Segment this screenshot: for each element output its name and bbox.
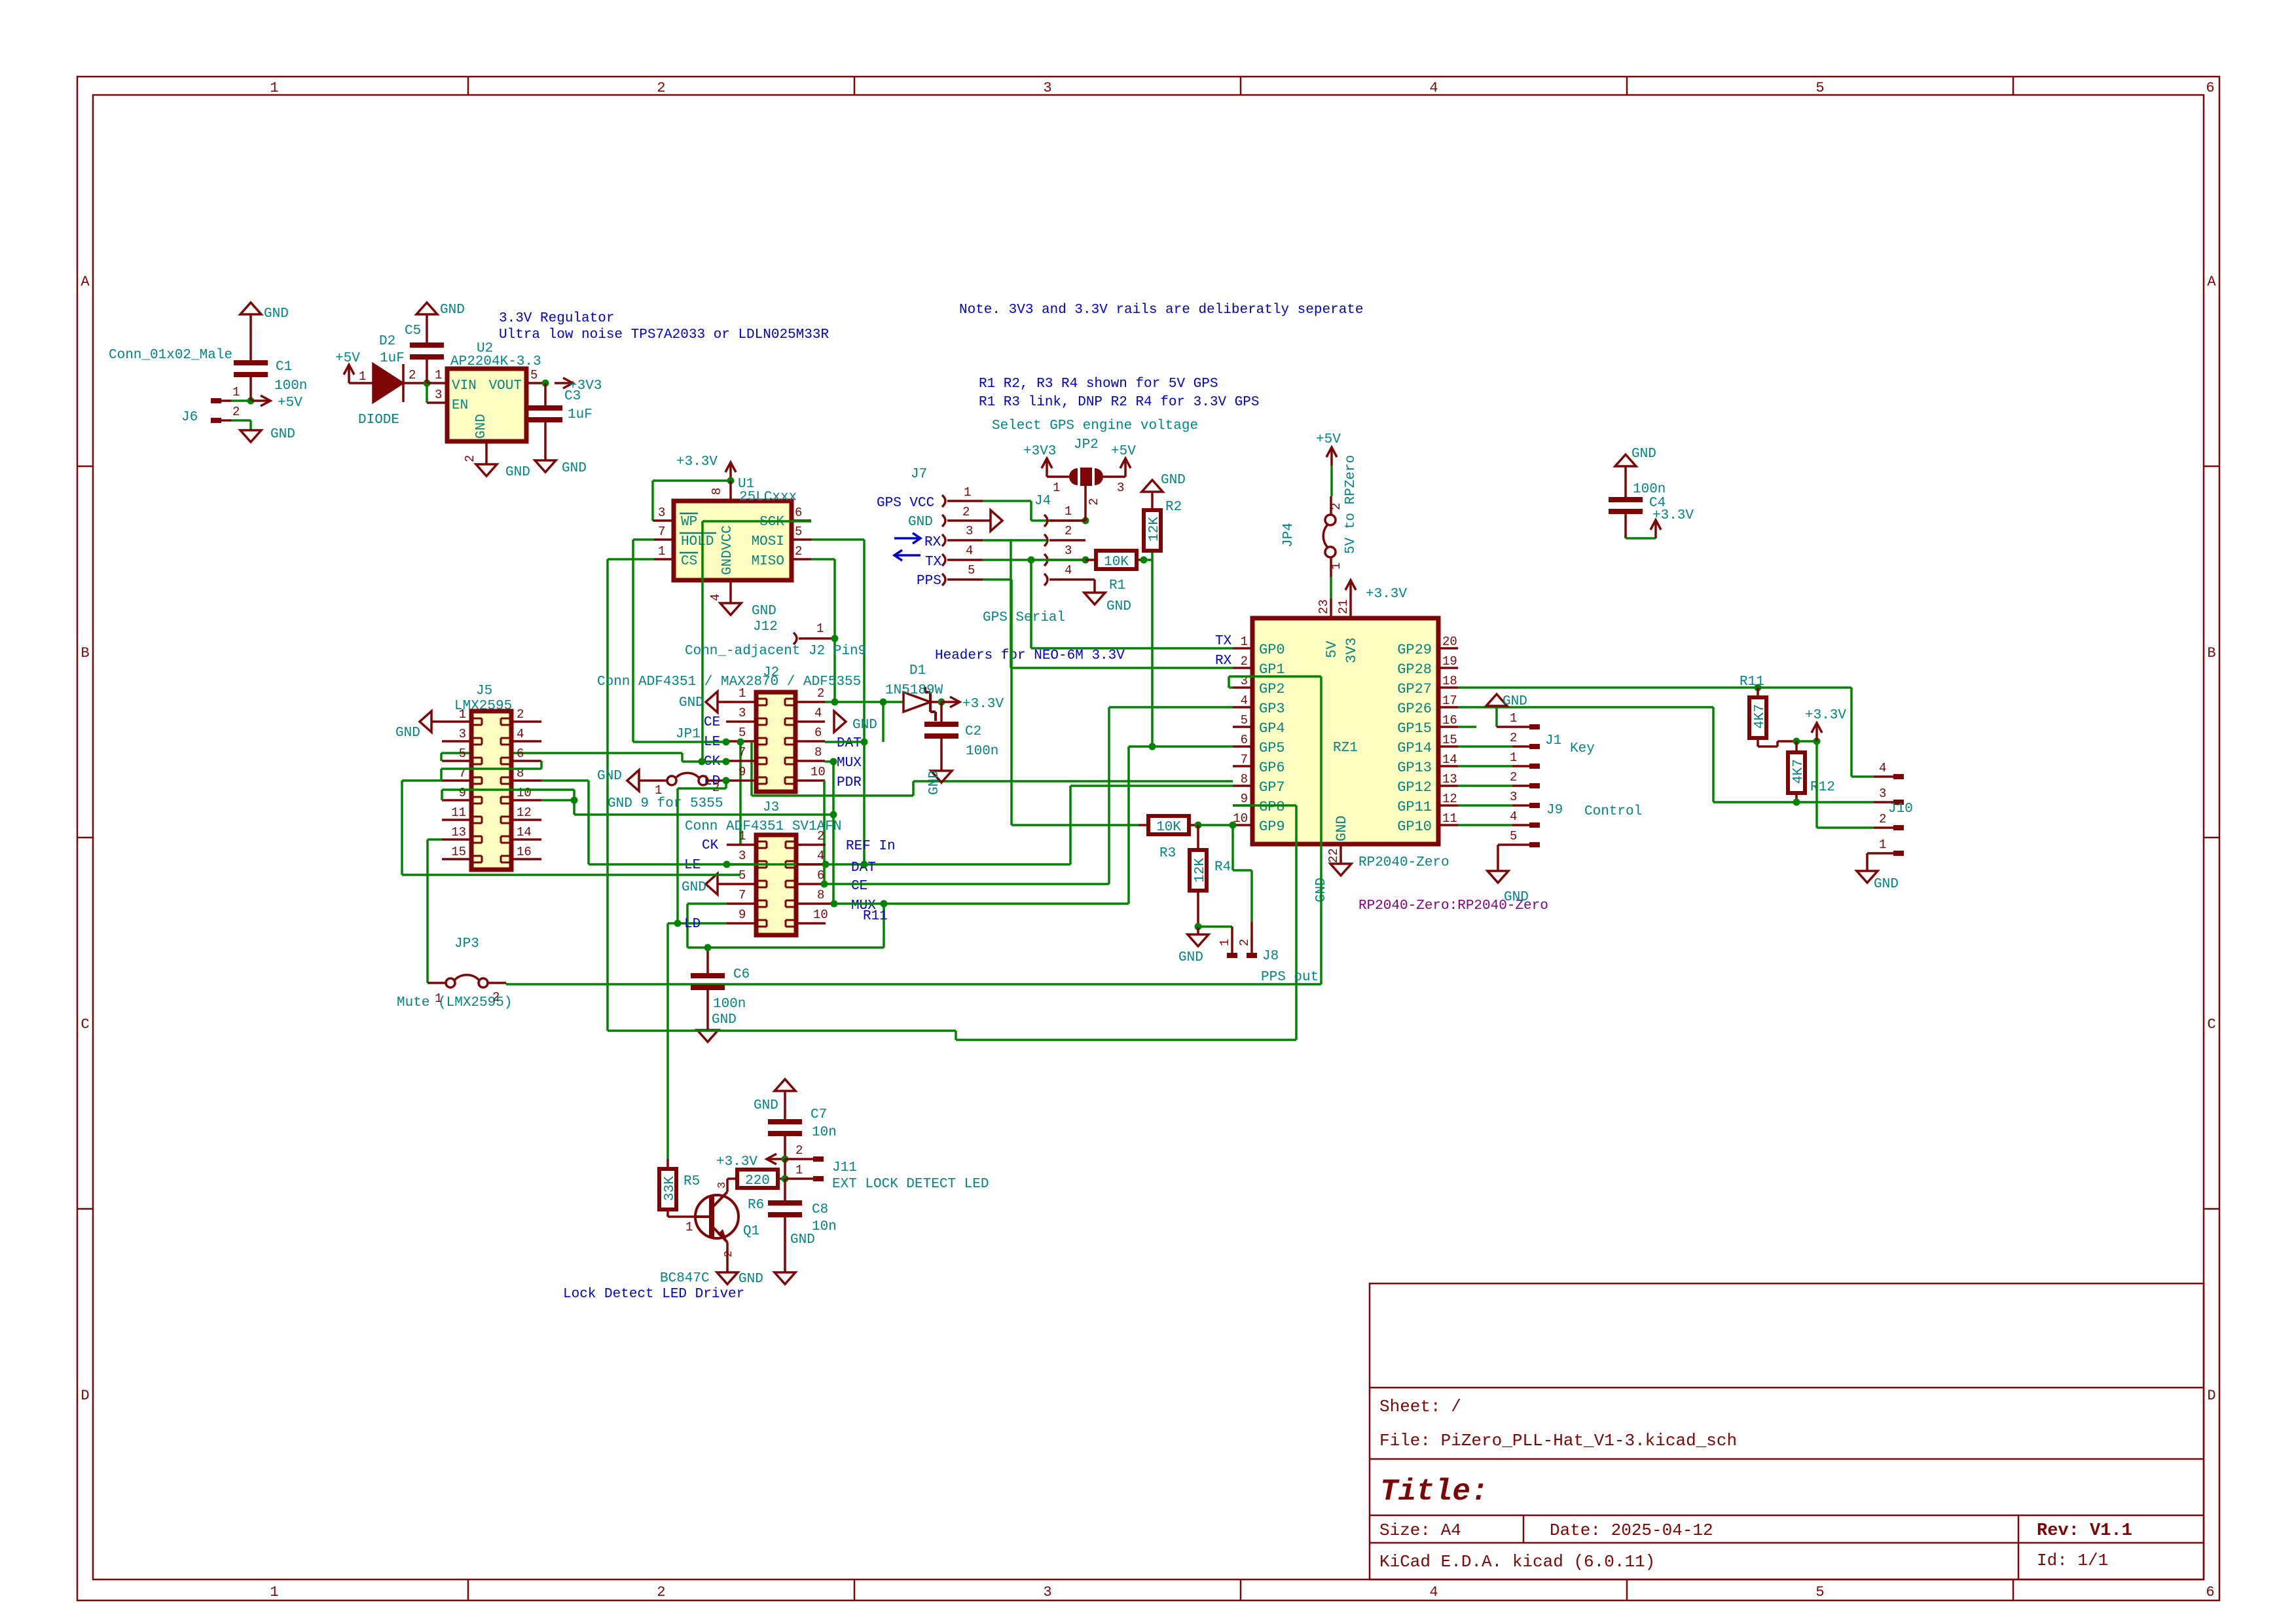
svg-text:4: 4 <box>1241 693 1248 708</box>
svg-text:5: 5 <box>1815 1584 1824 1600</box>
svg-text:RX: RX <box>924 535 941 550</box>
svg-text:GP9: GP9 <box>1259 819 1285 835</box>
pin U2.2 GND wire down <box>463 441 486 464</box>
svg-text:GND: GND <box>1503 694 1527 709</box>
node GP5 R2 junction <box>1149 743 1156 750</box>
svg-text:MISO: MISO <box>752 554 784 569</box>
svg-text:3: 3 <box>966 524 973 538</box>
wire GND bus to R12 and J10.3 <box>1497 707 1874 802</box>
svg-text:GND: GND <box>562 461 587 476</box>
svg-text:2: 2 <box>1510 731 1517 745</box>
svg-text:1uF: 1uF <box>380 351 405 366</box>
node MUX column mid junction <box>830 811 837 819</box>
svg-text:EN: EN <box>452 398 468 413</box>
pin J3.8 MUX <box>796 888 834 904</box>
svg-text:Conn_01x02_Male: Conn_01x02_Male <box>109 348 232 363</box>
connector J12 <box>685 619 866 659</box>
svg-text:1: 1 <box>459 707 466 722</box>
svg-text:5: 5 <box>530 368 538 382</box>
svg-text:100n: 100n <box>713 997 746 1012</box>
label LD J2 <box>704 774 720 789</box>
svg-text:4: 4 <box>1429 80 1438 96</box>
svg-text:Size: A4: Size: A4 <box>1379 1521 1461 1540</box>
svg-text:220: 220 <box>745 1173 770 1189</box>
note text select GPS engine voltage <box>992 418 1198 434</box>
pin J3.10 <box>796 908 828 923</box>
svg-text:8: 8 <box>814 745 822 760</box>
svg-text:2: 2 <box>817 686 824 701</box>
svg-text:A: A <box>81 274 90 290</box>
wire J4.4 to GND <box>1093 580 1096 593</box>
node J11.1 junction <box>782 1175 789 1183</box>
svg-text:Date: 2025-04-12: Date: 2025-04-12 <box>1550 1521 1713 1540</box>
svg-text:Id: 1/1: Id: 1/1 <box>2037 1551 2108 1570</box>
svg-text:GND: GND <box>1334 815 1350 841</box>
pin JP2.1 wire and +3V3 <box>1023 444 1069 495</box>
svg-text:Headers for NEO-6M 3.3V: Headers for NEO-6M 3.3V <box>935 648 1125 663</box>
svg-text:GND: GND <box>1106 599 1131 614</box>
pin J2.1 GND <box>718 686 756 702</box>
svg-text:19: 19 <box>1442 654 1457 669</box>
svg-text:+5V: +5V <box>1316 432 1341 447</box>
resistor R3 <box>1139 816 1198 861</box>
label DAT J2 <box>837 736 862 751</box>
ground above R2 <box>1142 473 1186 492</box>
pin U1.3 WP <box>653 506 674 521</box>
node CK junction 2 <box>723 758 730 766</box>
wire J5.8 to DAT row <box>541 781 589 864</box>
svg-text:J10: J10 <box>1888 802 1913 817</box>
svg-text:GND: GND <box>505 465 530 480</box>
svg-text:3: 3 <box>1065 544 1072 558</box>
svg-text:1: 1 <box>1879 838 1886 852</box>
connector J10 label <box>1888 802 1913 817</box>
ground below U1 <box>720 603 776 619</box>
svg-text:10n: 10n <box>812 1125 837 1140</box>
svg-text:HOLD: HOLD <box>681 534 714 549</box>
label RX at GP1 <box>1215 654 1232 669</box>
ground below R4 <box>1178 927 1209 965</box>
wire GND to C4 <box>1624 466 1627 500</box>
svg-text:GND 9 for 5355: GND 9 for 5355 <box>608 796 723 811</box>
svg-text:GP11: GP11 <box>1397 799 1432 815</box>
svg-text:2: 2 <box>1237 939 1252 946</box>
svg-text:5: 5 <box>1815 80 1824 96</box>
svg-text:2: 2 <box>463 455 477 462</box>
connector J7 label <box>911 467 927 482</box>
svg-text:2: 2 <box>1510 770 1517 784</box>
svg-text:RP2040-Zero: RP2040-Zero <box>1358 855 1449 870</box>
pin U1.2 MISO <box>792 544 811 559</box>
ground below J9.5 <box>1487 871 1529 905</box>
pin U2.5 VOUT wire to +3V3 node <box>526 368 545 383</box>
ground at GP26 <box>1486 694 1527 709</box>
svg-text:+3.3V: +3.3V <box>962 697 1004 712</box>
wire C2 to GND <box>940 736 943 771</box>
pin J2.7 CK <box>726 745 756 761</box>
pin J2.9 LD <box>708 765 756 781</box>
diode D2 <box>358 334 416 428</box>
jumper JP1 <box>655 773 720 798</box>
node J3.9 junction <box>674 920 682 927</box>
svg-text:10: 10 <box>517 786 532 800</box>
resistor R11 <box>1740 674 1768 747</box>
svg-text:+3.3V: +3.3V <box>1652 508 1694 523</box>
node MUX junction J2 <box>830 758 837 766</box>
svg-text:2: 2 <box>1065 524 1072 538</box>
svg-text:13: 13 <box>451 825 466 840</box>
svg-text:3: 3 <box>1879 786 1886 801</box>
svg-text:PPS out: PPS out <box>1261 970 1319 985</box>
capacitor C5 <box>405 323 444 383</box>
wire C3 to GND <box>544 420 547 460</box>
svg-text:1: 1 <box>1053 481 1060 495</box>
svg-text:5: 5 <box>1510 829 1517 843</box>
svg-text:8: 8 <box>1241 772 1248 786</box>
node U1 VCC junction <box>727 477 735 485</box>
svg-text:J6: J6 <box>181 410 198 425</box>
jumper JP4 <box>1281 503 1343 570</box>
pin U2.3 EN <box>427 388 447 403</box>
node +3.3V junction right <box>1813 738 1821 745</box>
pin J2.4 GND <box>795 706 825 722</box>
connector J4 label <box>1034 494 1051 509</box>
svg-text:Rev: V1.1: Rev: V1.1 <box>2037 1521 2132 1541</box>
svg-text:10: 10 <box>811 765 826 779</box>
ground below C3 <box>535 460 587 476</box>
svg-text:GND: GND <box>440 303 465 318</box>
title block sheet text <box>1379 1397 1461 1416</box>
svg-text:Control: Control <box>1584 804 1642 819</box>
svg-text:R5: R5 <box>683 1174 700 1189</box>
footprint RP2040-Zero:RP2040-Zero <box>1358 898 1548 913</box>
note text 3V3 rails <box>959 303 1364 318</box>
node DAT junction J2 <box>861 739 868 746</box>
wire J6 pin2 to GND <box>231 420 251 430</box>
svg-text:4K7: 4K7 <box>1753 704 1768 729</box>
connector J11 pin1 <box>785 1163 824 1181</box>
svg-text:RX: RX <box>1215 654 1232 669</box>
ground right of J2.4 <box>834 711 877 733</box>
svg-text:J7: J7 <box>911 467 927 482</box>
svg-text:9: 9 <box>738 765 746 779</box>
svg-text:2: 2 <box>962 505 970 519</box>
pin J4.3 <box>1044 544 1085 566</box>
label TX at GP0 <box>1215 634 1232 649</box>
wire +5V to D2 anode <box>349 369 373 384</box>
wire CE row to GP5 column <box>824 707 1233 884</box>
svg-text:C6: C6 <box>733 967 750 982</box>
node J3.3 junction <box>723 861 731 868</box>
svg-text:1: 1 <box>816 621 824 636</box>
title block size text <box>1379 1521 1461 1540</box>
svg-text:GND: GND <box>852 718 877 733</box>
frame row letters <box>81 274 2216 1404</box>
svg-text:2: 2 <box>232 405 240 419</box>
svg-text:3: 3 <box>1510 790 1517 804</box>
capacitor C3 <box>528 383 592 422</box>
svg-text:VCC: VCC <box>720 525 735 550</box>
svg-text:1: 1 <box>435 991 442 1006</box>
wire GPS VCC to J4.1 <box>983 501 1085 521</box>
ground left of J3.5 <box>682 874 718 895</box>
ground below U2 <box>476 464 530 480</box>
wire J10.1 to GND <box>1867 853 1874 871</box>
node C6 junction <box>704 944 712 951</box>
svg-text:GPS Serial: GPS Serial <box>983 610 1065 625</box>
wire C6 to GND <box>706 987 709 1030</box>
connector J2 body <box>756 692 795 792</box>
wire J5.1 to GND <box>431 720 442 723</box>
pin J7.4 TX <box>942 544 983 566</box>
pin J7.1 GPS VCC <box>942 485 983 507</box>
svg-text:CE: CE <box>851 879 867 894</box>
svg-text:AP2204K-3.3: AP2204K-3.3 <box>450 354 541 369</box>
wire JP1.1 to GND <box>639 779 667 782</box>
pin J2.6 DAT <box>795 726 825 741</box>
connector J9 label <box>1546 803 1642 819</box>
svg-text:3: 3 <box>435 388 442 402</box>
pin JP2.2 wire down <box>1085 485 1101 521</box>
wire R1 to R2 bottom <box>1144 549 1152 560</box>
wire CS bus bottom <box>608 1031 1296 1040</box>
connector J1 pin2 <box>1510 731 1540 749</box>
title block date text <box>1550 1521 1713 1540</box>
wire J5.6 J5.7 link <box>441 761 541 781</box>
wire R5 to Q1 base <box>668 1215 696 1218</box>
svg-text:C7: C7 <box>811 1107 827 1122</box>
svg-text:5: 5 <box>459 747 466 761</box>
capacitor C6 <box>691 948 750 1012</box>
svg-text:4: 4 <box>708 594 723 601</box>
svg-text:12K: 12K <box>1147 517 1162 542</box>
svg-text:+5V: +5V <box>335 351 360 366</box>
svg-text:3: 3 <box>738 849 746 863</box>
pin J2.3 CE <box>726 706 756 722</box>
title block kicad text <box>1379 1552 1655 1572</box>
wire GP6 branch column <box>752 742 1233 796</box>
svg-text:R3: R3 <box>1159 846 1176 861</box>
label CE J2 <box>704 715 720 730</box>
svg-text:1: 1 <box>1510 711 1517 726</box>
wire +3.3V node to J10.2 <box>1817 741 1874 828</box>
label PPS <box>917 574 941 589</box>
node R12 bottom junction <box>1793 799 1800 806</box>
svg-text:1: 1 <box>1065 504 1072 519</box>
svg-text:5V: 5V <box>1324 640 1340 658</box>
svg-text:9: 9 <box>738 908 746 922</box>
svg-text:GND: GND <box>754 1098 778 1113</box>
transistor Q1 <box>660 1192 759 1286</box>
node TX junction 2 <box>1082 557 1089 564</box>
pin J2.2 <box>795 686 825 702</box>
ground below Q1 <box>717 1272 763 1287</box>
power +3.3V right of D1 <box>941 697 1004 712</box>
wire MUX row to GP4 column <box>834 747 1233 904</box>
svg-text:+3.3V: +3.3V <box>1366 587 1407 602</box>
wire R2 node to GP5 column <box>1151 560 1154 747</box>
note text 3.3V regulator <box>499 311 614 326</box>
svg-text:CS: CS <box>681 554 697 569</box>
svg-text:3: 3 <box>716 1182 729 1189</box>
svg-text:GP5: GP5 <box>1259 740 1285 756</box>
pin J3.2 REF In <box>796 829 826 845</box>
wire R11 bottom jog <box>1758 741 1796 747</box>
pin J3.7 <box>727 888 756 904</box>
pin J4.2 <box>1044 524 1085 546</box>
frame column numbers <box>270 80 2214 1600</box>
svg-text:16: 16 <box>1442 713 1457 728</box>
svg-text:23: 23 <box>1317 599 1331 614</box>
svg-text:2: 2 <box>517 707 524 722</box>
eeprom U1 body <box>674 477 797 580</box>
ground above C7 <box>754 1079 795 1113</box>
label 5V to RPZero <box>1343 455 1358 554</box>
svg-text:12: 12 <box>517 805 532 820</box>
svg-text:GND: GND <box>679 695 704 710</box>
wire MOSI to DAT column <box>811 540 864 864</box>
wire LD to R5 <box>668 923 678 1159</box>
wire LE row <box>633 741 726 743</box>
pin J7.2 GND <box>942 505 991 526</box>
wire GP26 to GND <box>1458 707 1497 727</box>
svg-text:1: 1 <box>795 1163 803 1177</box>
pin J2.5 LE <box>726 726 756 741</box>
pin J4.1 <box>1044 504 1085 526</box>
svg-text:1N5189W: 1N5189W <box>885 683 943 698</box>
svg-text:1: 1 <box>435 368 442 382</box>
wire C4 to +3.3V <box>1626 511 1656 538</box>
wire HOLD to LE column <box>633 540 654 742</box>
svg-text:3: 3 <box>738 706 746 720</box>
svg-text:6: 6 <box>2206 80 2214 96</box>
connector J6 <box>109 348 240 425</box>
svg-text:C5: C5 <box>405 323 421 339</box>
label LD J3 <box>684 917 701 932</box>
svg-text:1: 1 <box>738 829 746 843</box>
svg-text:6: 6 <box>517 747 524 761</box>
svg-text:GND: GND <box>712 1012 737 1027</box>
svg-text:Key: Key <box>1570 741 1595 756</box>
power +5V arrow right of J6 <box>252 396 302 411</box>
label PDR J2 <box>837 775 862 790</box>
node VOUT junction <box>542 380 549 387</box>
svg-text:7: 7 <box>738 888 746 902</box>
svg-text:2: 2 <box>657 1584 665 1600</box>
svg-text:JP4: JP4 <box>1281 523 1296 547</box>
wire +5V to JP4.2 <box>1331 466 1332 515</box>
node R11 top junction <box>1755 684 1762 692</box>
svg-text:GND: GND <box>1504 890 1529 905</box>
svg-text:2: 2 <box>723 1251 735 1257</box>
note text mute LMX2595 <box>397 995 512 1010</box>
node DAT column junction J3 <box>861 861 868 868</box>
svg-text:C: C <box>2207 1016 2215 1033</box>
wire R12 node to +3.3V <box>1796 740 1817 743</box>
node J3.6 junction <box>821 881 828 888</box>
note text GPS serial <box>983 610 1065 625</box>
svg-text:J8: J8 <box>1262 949 1279 964</box>
wire DAT row long <box>589 863 1070 866</box>
svg-text:GPS VCC: GPS VCC <box>877 496 934 511</box>
wire JP4.1 to RZ1 pin23 <box>1330 557 1332 599</box>
svg-text:2: 2 <box>492 990 500 1005</box>
svg-text:LD: LD <box>684 917 701 932</box>
wire J5.7 to bottom bus <box>402 781 740 875</box>
connector J1 pin1 <box>1497 711 1540 729</box>
note text GND 9 for 5355 <box>608 796 723 811</box>
svg-text:2: 2 <box>795 1143 803 1158</box>
label GND J7.2 <box>908 515 933 530</box>
svg-text:13: 13 <box>1442 772 1457 786</box>
svg-text:11: 11 <box>451 805 466 820</box>
connector J5 header <box>454 684 512 714</box>
svg-text:GP29: GP29 <box>1397 642 1432 658</box>
svg-text:R6: R6 <box>748 1198 764 1213</box>
svg-text:33K: 33K <box>663 1176 678 1201</box>
svg-text:J12: J12 <box>753 619 778 635</box>
resistor R12 <box>1788 741 1835 802</box>
label TX with arrow <box>894 550 942 570</box>
wire GP8 through bus <box>1233 805 1296 1040</box>
svg-text:1: 1 <box>359 369 366 384</box>
svg-text:15: 15 <box>1442 733 1457 747</box>
svg-text:3: 3 <box>1043 1584 1051 1600</box>
pin J7.3 RX <box>942 524 983 546</box>
wire C8 to GND <box>784 1215 786 1272</box>
ground below C2 <box>927 770 952 795</box>
svg-text:+3.3V: +3.3V <box>716 1154 757 1170</box>
svg-text:VIN: VIN <box>452 378 477 394</box>
svg-text:4: 4 <box>1510 809 1517 824</box>
svg-text:R11: R11 <box>1740 674 1764 690</box>
connector J3 header <box>685 800 841 834</box>
svg-text:6: 6 <box>2206 1584 2214 1600</box>
svg-text:J9: J9 <box>1546 803 1563 818</box>
wires GP13-GP10 to J9 <box>1458 766 1512 825</box>
svg-text:R12: R12 <box>1810 780 1835 795</box>
ground below RZ1 <box>1314 864 1351 902</box>
label GPS VCC <box>877 496 934 511</box>
pin J7.5 PPS <box>942 563 983 585</box>
jumper JP2 <box>1069 437 1103 487</box>
svg-text:Ultra low noise TPS7A2033 or L: Ultra low noise TPS7A2033 or LDLN025M33R <box>499 327 829 342</box>
label CK J2 <box>704 754 721 769</box>
power +3.3V above RZ1 <box>1345 580 1407 602</box>
svg-text:J1: J1 <box>1545 733 1561 748</box>
svg-text:C: C <box>81 1016 89 1033</box>
svg-text:1: 1 <box>270 1584 278 1600</box>
svg-text:1: 1 <box>1241 635 1248 649</box>
svg-text:25LCxxx: 25LCxxx <box>739 490 797 505</box>
wire GP14 to J1.2 <box>1458 745 1512 748</box>
title block id text <box>2037 1551 2108 1570</box>
wire J2.6 to DAT column <box>825 741 864 743</box>
title block outline <box>1370 1283 2204 1579</box>
svg-text:5V to RPZero: 5V to RPZero <box>1343 455 1358 554</box>
svg-text:Select GPS engine voltage: Select GPS engine voltage <box>992 418 1198 434</box>
node D1 +3.3V junction <box>938 699 945 706</box>
svg-text:B: B <box>81 645 89 661</box>
svg-text:GND: GND <box>908 515 933 530</box>
svg-text:2: 2 <box>409 368 416 382</box>
svg-text:MOSI: MOSI <box>752 534 784 549</box>
svg-text:20: 20 <box>1442 635 1457 649</box>
connector J5 body <box>471 711 511 870</box>
svg-text:GP3: GP3 <box>1259 701 1285 717</box>
power +3.3V above R12 <box>1805 708 1846 741</box>
pin J3.9 LD <box>678 908 756 923</box>
